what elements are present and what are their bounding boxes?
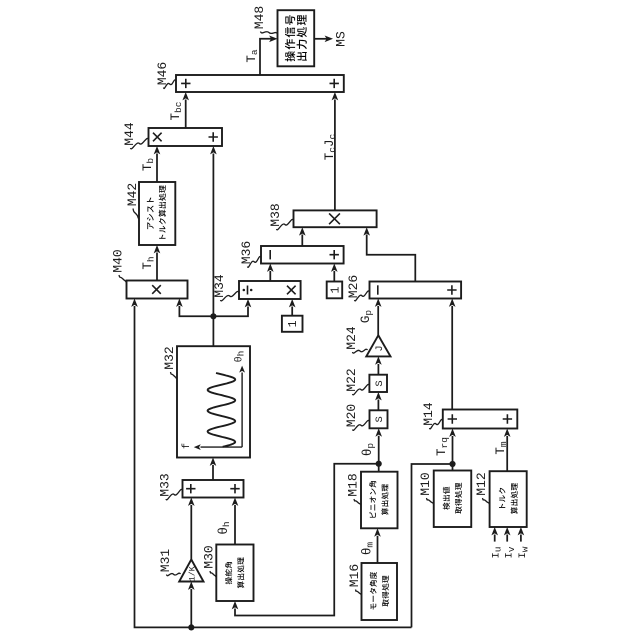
wire M33 to M32: [212, 465, 214, 480]
svg-text:Iw: Iw: [517, 546, 530, 558]
block M18 (pinion angle calculation): [361, 472, 398, 529]
multiplier M40: [127, 281, 188, 299]
svg-text:J: J: [374, 345, 386, 351]
wire branch to M34 divide input: [213, 307, 248, 317]
junction node Trq: [449, 461, 455, 467]
wire TcJc : M38 to M46: [334, 100, 336, 211]
svg-text:S: S: [374, 416, 386, 422]
wire M14 output up to M26 plus input: [451, 306, 453, 410]
junction node on feedback to M31: [188, 624, 194, 630]
wire M34 to M36 minus input: [269, 271, 271, 281]
svg-text:Iu: Iu: [490, 546, 503, 558]
block M12 (torque calculation): [490, 471, 527, 527]
svg-text:M36: M36: [239, 241, 254, 264]
wire M26 output to M38: [367, 235, 416, 282]
svg-text:M46: M46: [155, 62, 170, 85]
svg-text:1: 1: [287, 320, 300, 327]
wire branch to M40 right input: [179, 306, 213, 316]
block M16 (motor angle acquisition): [362, 563, 398, 620]
svg-text:M18: M18: [346, 473, 361, 496]
svg-text:M44: M44: [122, 122, 137, 146]
svg-text:S: S: [374, 380, 386, 386]
adder M14: [443, 410, 518, 429]
block M32 (sine map): [177, 346, 250, 457]
svg-text:1: 1: [329, 286, 342, 293]
junction node on M32 output: [210, 313, 216, 319]
wire Tbc : M44 to M46: [185, 100, 187, 129]
subtractor-adder M36: [261, 246, 344, 264]
wire Th : M40 to M42: [156, 253, 158, 281]
svg-text:M30: M30: [202, 545, 217, 568]
wire M32 output up to M44 + input: [212, 154, 214, 347]
wire theta-p : M18 up to M20: [378, 436, 380, 472]
wire M36 to M38: [301, 235, 303, 247]
svg-text:M26: M26: [346, 275, 361, 298]
wire const1 to M34: [291, 307, 293, 316]
wire theta-h : M30 to M33: [234, 505, 236, 545]
svg-text:M31: M31: [158, 549, 173, 573]
constant 1 block under M34: [282, 316, 303, 332]
wire Tb : M42 to M44: [156, 154, 158, 183]
svg-text:M14: M14: [421, 402, 436, 426]
wire Tm : M12 to M14: [506, 436, 508, 471]
wire const1 to M36 plus input: [333, 271, 335, 282]
svg-text:1/K: 1/K: [187, 566, 197, 581]
block M42 (assist torque calculation): [139, 182, 175, 245]
multiplier-adder M44: [149, 128, 223, 146]
block M30 (steering angle calculation): [216, 545, 253, 602]
svg-text:M10: M10: [418, 472, 433, 495]
wire bottom feedback line (Trq): [135, 306, 412, 627]
multiplier M38: [294, 210, 377, 227]
svg-text:MS: MS: [334, 31, 349, 47]
svg-text:M12: M12: [474, 472, 489, 495]
wires Iu Iv Iw into M12: [494, 535, 496, 542]
svg-text:f: f: [181, 443, 193, 449]
wire M20 to M22: [377, 400, 379, 411]
svg-text:M20: M20: [344, 404, 359, 427]
wire Gp : M24 to M26 minus input: [377, 306, 379, 335]
block M48 (operation signal output processing): [278, 10, 315, 66]
svg-text:θh: θh: [234, 351, 247, 363]
wire Trq : M10 to M14: [452, 436, 454, 471]
subtractor-adder M26: [370, 282, 462, 299]
svg-text:M22: M22: [344, 368, 359, 391]
block M22 (S): [369, 375, 387, 392]
wire theta-m : M16 to M18: [377, 536, 379, 563]
svg-text:M48: M48: [252, 6, 267, 29]
svg-text:Iv: Iv: [504, 546, 517, 558]
svg-text:M38: M38: [268, 203, 283, 226]
wire M22 to M24: [377, 364, 379, 375]
divider-multiplier M34: [239, 281, 301, 299]
wire Ta : M46 to M48: [260, 39, 272, 75]
adder M46: [176, 75, 344, 92]
svg-text:M32: M32: [162, 346, 177, 369]
wire branch theta-p to M30 (feedback left-down): [235, 464, 379, 616]
block M10 (detected value acquisition): [434, 471, 472, 528]
junction node theta-p: [376, 461, 382, 467]
adder M33: [183, 480, 244, 498]
svg-text:M24: M24: [344, 326, 359, 350]
gain block M31 (1/K) triangle: [179, 560, 203, 582]
wire M31 to M33: [190, 505, 192, 560]
wire feedback up into M31: [190, 589, 192, 627]
svg-text:M34: M34: [212, 274, 227, 298]
M32 sine curve: [208, 373, 236, 447]
M32 graph f axis (horizontal, arrow left): [201, 446, 243, 448]
svg-text:M40: M40: [111, 249, 126, 272]
M32 graph theta-h axis (vertical, arrow up): [241, 373, 243, 448]
block M20 (S): [370, 410, 388, 428]
wire MS output of M48: [314, 38, 326, 40]
svg-text:M42: M42: [125, 183, 140, 206]
svg-text:M16: M16: [347, 564, 362, 587]
wire branch Trq down to bottom feedback line: [412, 464, 453, 627]
constant 1 block left of M26: [327, 282, 343, 299]
gain block M24 (J) triangle: [366, 335, 390, 356]
svg-text:M33: M33: [158, 473, 173, 496]
